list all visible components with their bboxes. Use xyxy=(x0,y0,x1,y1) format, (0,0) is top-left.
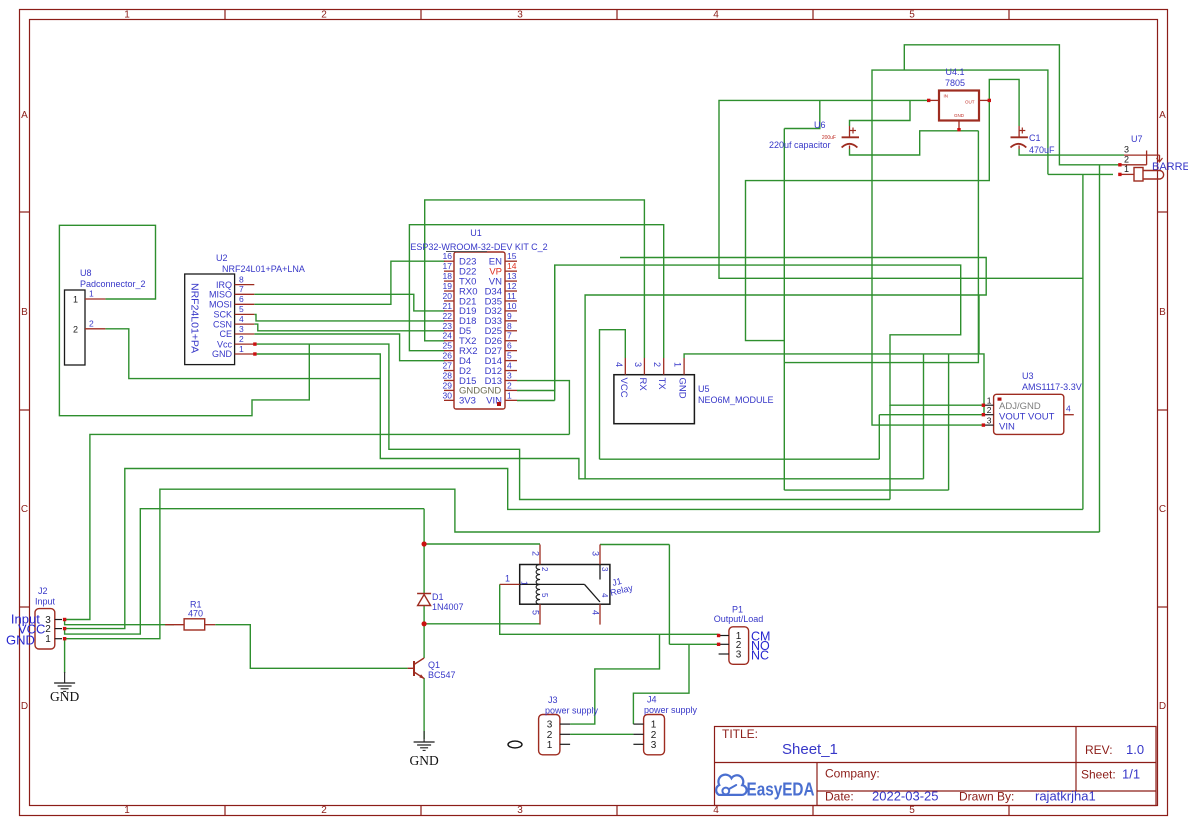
wire CSN U2.4 to U1 D5 xyxy=(254,324,445,331)
wire H4 drop to D1 top junction xyxy=(423,509,425,544)
svg-text:J2: J2 xyxy=(38,586,48,596)
svg-text:3: 3 xyxy=(651,740,657,751)
wire J3.2 to J4.2 xyxy=(570,733,633,735)
wire H1 Input J2.3 xyxy=(65,434,570,619)
svg-text:1.0: 1.0 xyxy=(1126,742,1144,757)
wire W257 top loop xyxy=(620,258,986,296)
wire U3 VOUT row xyxy=(879,414,984,416)
svg-text:3: 3 xyxy=(736,650,742,661)
svg-text:GND: GND xyxy=(50,689,79,704)
svg-text:25: 25 xyxy=(443,341,453,351)
svg-text:Drawn By:: Drawn By: xyxy=(959,790,1014,804)
junction D1 top xyxy=(422,541,427,546)
ground symbol Q1 xyxy=(423,731,425,742)
svg-text:2: 2 xyxy=(321,10,327,21)
wire C1 bottom to U7 pin3 xyxy=(1019,149,1124,155)
U1 pin 28 D15 xyxy=(444,379,454,381)
U1 pin 11 D35 xyxy=(505,300,517,302)
svg-text:A: A xyxy=(21,110,28,121)
svg-text:2: 2 xyxy=(239,334,244,344)
wire main line into 7805 IN xyxy=(719,100,1083,278)
svg-text:24: 24 xyxy=(443,331,453,341)
U1 pin 23 D5 xyxy=(444,330,454,332)
svg-text:1: 1 xyxy=(505,574,510,584)
wire U7 pin1 net to U3 VIN xyxy=(872,70,1048,425)
svg-text:power supply: power supply xyxy=(545,706,599,716)
svg-text:Padconnector_2: Padconnector_2 xyxy=(80,279,146,289)
U1 pin 12 D34 xyxy=(505,290,517,292)
ground symbol J2 xyxy=(64,672,66,683)
wire J2.1 to ground symbol xyxy=(64,639,66,673)
svg-text:1: 1 xyxy=(673,362,683,367)
U4.1 pin GND xyxy=(958,121,960,130)
svg-text:OUT: OUT xyxy=(965,100,975,105)
regulator U3 AMS1117-3.3V xyxy=(994,394,1064,434)
svg-text:TITLE:: TITLE: xyxy=(722,727,758,741)
wire U1 VIN row xyxy=(517,400,555,402)
wire D1 vertical bottom xyxy=(423,606,425,624)
svg-text:19: 19 xyxy=(443,281,453,291)
title block xyxy=(715,727,1157,806)
U8 pin 2 xyxy=(85,328,105,330)
wire U5 VCC riser to 5V U-line xyxy=(600,330,626,460)
wire line y490 to x948 riser xyxy=(784,489,948,491)
wire VCC branch to U8 loop xyxy=(59,225,309,415)
ic U1 ESP32-WROOM-32-DEV KIT C_2 xyxy=(454,252,505,409)
svg-text:TX: TX xyxy=(656,378,667,391)
svg-text:4: 4 xyxy=(591,610,601,615)
svg-text:5: 5 xyxy=(909,805,915,816)
wire W295 xyxy=(585,295,979,479)
svg-text:Sheet_1: Sheet_1 xyxy=(782,741,838,758)
connector J3 power supply xyxy=(539,715,560,755)
svg-text:1: 1 xyxy=(520,581,529,586)
svg-text:8: 8 xyxy=(507,321,512,331)
U1 pin 4 D12 xyxy=(505,370,517,372)
net flag 0 oval xyxy=(508,741,522,748)
svg-text:B: B xyxy=(21,307,28,318)
svg-text:U6: U6 xyxy=(814,120,826,130)
svg-text:2022-03-25: 2022-03-25 xyxy=(872,789,939,804)
wire relay pin3 riser to P1.2 xyxy=(668,545,670,645)
svg-text:J3: J3 xyxy=(548,695,558,705)
svg-text:2: 2 xyxy=(89,318,94,328)
wire VCC net U2.2 via H449 to x890 riser xyxy=(255,344,890,499)
svg-text:3: 3 xyxy=(517,10,523,21)
module U5 NEO6M_MODULE xyxy=(614,375,695,424)
wire J3.3 to CM net xyxy=(570,634,659,724)
U5 pin 1 GND xyxy=(683,358,685,375)
svg-text:4: 4 xyxy=(713,10,719,21)
wire R1 right to Q1 base xyxy=(215,625,407,669)
svg-text:NRF24L01+PA+LNA: NRF24L01+PA+LNA xyxy=(222,264,305,274)
svg-text:1: 1 xyxy=(73,295,78,305)
svg-text:BC547: BC547 xyxy=(428,670,456,680)
U5 pin 4 VCC xyxy=(624,358,626,375)
wire Q1 collector xyxy=(423,624,425,658)
U1 pin 27 D2 xyxy=(444,370,454,372)
svg-text:RX: RX xyxy=(637,378,648,392)
connector P1 Output/Load xyxy=(729,627,749,665)
svg-text:1: 1 xyxy=(89,289,94,299)
svg-text:SCK: SCK xyxy=(213,310,232,320)
svg-text:NRF24L01+PA: NRF24L01+PA xyxy=(189,283,201,353)
J3 pin 3 xyxy=(560,723,570,725)
svg-text:3: 3 xyxy=(633,362,643,367)
svg-text:2: 2 xyxy=(507,380,512,390)
wire 7805 OUT junction down and left xyxy=(746,100,990,340)
diode D1 1N4007 xyxy=(417,593,431,595)
svg-text:200uF: 200uF xyxy=(822,135,836,141)
svg-text:3: 3 xyxy=(507,370,512,380)
svg-text:2: 2 xyxy=(652,362,662,367)
svg-text:A: A xyxy=(1159,110,1166,121)
svg-text:2: 2 xyxy=(321,805,327,816)
svg-text:21: 21 xyxy=(443,301,453,311)
U1 pin 1 VIN xyxy=(505,399,517,401)
wire U5 GND long line xyxy=(684,354,984,415)
svg-text:D1: D1 xyxy=(432,592,444,602)
U3 pin 1 xyxy=(983,404,993,406)
svg-text:C1: C1 xyxy=(1029,133,1041,143)
svg-text:2: 2 xyxy=(987,405,992,415)
wire vertical x554 xyxy=(554,265,556,400)
svg-text:6: 6 xyxy=(507,341,512,351)
svg-text:1: 1 xyxy=(547,740,553,751)
svg-text:4: 4 xyxy=(713,805,719,816)
wire U7 pin2 loop over 7805 xyxy=(904,45,1120,165)
J1 pin 3 xyxy=(599,545,601,565)
svg-text:P1: P1 xyxy=(732,605,743,615)
J1 switch xyxy=(520,583,585,585)
svg-text:12: 12 xyxy=(507,281,517,291)
wire long vertical x784 xyxy=(783,129,785,491)
U1 pin 19 RX0 xyxy=(444,290,454,292)
junction D1 bottom xyxy=(422,621,427,626)
svg-text:4: 4 xyxy=(600,593,609,598)
svg-text:power supply: power supply xyxy=(644,705,698,715)
U1 pin 21 D19 xyxy=(444,310,454,312)
svg-text:7805: 7805 xyxy=(945,78,965,88)
svg-text:1: 1 xyxy=(124,10,130,21)
U1 pin 9 D33 xyxy=(505,320,517,322)
svg-text:VIN: VIN xyxy=(999,422,1015,433)
svg-text:27: 27 xyxy=(443,361,453,371)
svg-text:3: 3 xyxy=(517,805,523,816)
svg-text:2: 2 xyxy=(540,567,549,572)
svg-text:GND: GND xyxy=(212,349,233,359)
U7 pin 3 xyxy=(1124,154,1160,156)
svg-text:1: 1 xyxy=(987,396,992,406)
svg-text:B: B xyxy=(1159,307,1166,318)
U1 pin 8 D25 xyxy=(505,330,517,332)
svg-text:MOSI: MOSI xyxy=(209,300,232,310)
svg-text:8: 8 xyxy=(239,274,244,284)
U7 pin 2 xyxy=(1120,164,1147,166)
svg-text:U8: U8 xyxy=(80,268,92,278)
svg-text:NEO6M_MODULE: NEO6M_MODULE xyxy=(698,395,774,405)
svg-text:9: 9 xyxy=(507,311,512,321)
svg-text:18: 18 xyxy=(443,271,453,281)
connector J2 Input xyxy=(35,609,55,649)
svg-text:GND: GND xyxy=(6,633,35,648)
svg-text:7: 7 xyxy=(239,284,244,294)
svg-text:U4.1: U4.1 xyxy=(945,67,964,77)
regulator U4.1 7805 xyxy=(939,91,979,121)
wire relay pin1 to P1 pin1 CM xyxy=(500,584,719,634)
svg-text:1: 1 xyxy=(124,805,130,816)
svg-text:EasyEDA: EasyEDA xyxy=(747,780,815,800)
svg-text:22: 22 xyxy=(443,311,453,321)
wire GND net U2.1 stepped line to x923 xyxy=(255,354,924,479)
svg-text:rajatkrjha1: rajatkrjha1 xyxy=(1035,789,1096,804)
svg-text:4: 4 xyxy=(239,314,244,324)
svg-text:ESP32-WROOM-32-DEV KIT C_2: ESP32-WROOM-32-DEV KIT C_2 xyxy=(410,242,547,252)
U1 pin 6 D27 xyxy=(505,350,517,352)
wire D1 bottom junction to relay pin5 xyxy=(424,623,540,625)
svg-text:Date:: Date: xyxy=(825,790,854,804)
J1 pin 4 xyxy=(599,604,601,624)
J2 pin 3 xyxy=(55,619,62,621)
svg-text:220uf capacitor: 220uf capacitor xyxy=(769,140,831,150)
connector J4 power supply xyxy=(644,715,665,755)
J1 pin 1 xyxy=(500,583,520,585)
svg-text:1/1: 1/1 xyxy=(1122,767,1140,782)
svg-text:CSN: CSN xyxy=(213,319,232,329)
svg-text:MISO: MISO xyxy=(209,290,232,300)
svg-text:2: 2 xyxy=(1124,154,1129,164)
svg-text:D: D xyxy=(21,701,28,712)
svg-text:6: 6 xyxy=(239,294,244,304)
svg-text:AMS1117-3.3V: AMS1117-3.3V xyxy=(1022,382,1082,392)
resistor R1 470 xyxy=(184,619,205,630)
wire 7805 GND rail down xyxy=(784,131,978,363)
svg-text:1: 1 xyxy=(507,390,512,400)
wire Input J2.3 to R1 xyxy=(65,620,174,625)
U1 pin 25 RX2 xyxy=(444,350,454,352)
U8 pin 1 xyxy=(85,298,105,300)
wire 5V U-line to U3 VOUT riser xyxy=(600,458,880,460)
U1 pin 2 GND xyxy=(505,389,517,391)
U1 pin 22 D18 xyxy=(444,320,454,322)
wire drop x979 to U5 GND line xyxy=(978,295,980,354)
J4 pin 3 xyxy=(633,743,643,745)
wire J4.1 drop xyxy=(633,644,689,724)
svg-text:U7: U7 xyxy=(1131,134,1143,144)
U4.1 pin IN xyxy=(929,99,939,101)
U1 pin 18 TX0 xyxy=(444,280,454,282)
J3 pin 2 xyxy=(560,733,570,735)
svg-text:VCC: VCC xyxy=(618,378,629,398)
svg-text:NC: NC xyxy=(751,649,769,663)
wire D1 vertical top xyxy=(423,544,425,593)
P1 pin 1 xyxy=(719,635,729,637)
U1 pin 10 D32 xyxy=(505,310,517,312)
svg-text:GND: GND xyxy=(954,113,965,118)
svg-text:29: 29 xyxy=(443,380,453,390)
U1 pin 20 D21 xyxy=(444,300,454,302)
svg-text:1: 1 xyxy=(1124,164,1129,174)
svg-text:U1: U1 xyxy=(470,228,482,238)
U1 pin 30 3V3 xyxy=(444,399,454,401)
svg-text:20: 20 xyxy=(443,291,453,301)
wire top loop x784 horiz xyxy=(784,100,820,128)
svg-text:IRQ: IRQ xyxy=(216,280,232,290)
U1 pin 17 D22 xyxy=(444,270,454,272)
transistor Q1 BC547 xyxy=(413,661,415,676)
svg-text:VOUT: VOUT xyxy=(1028,411,1055,422)
svg-text:28: 28 xyxy=(443,370,453,380)
relay J1 xyxy=(520,565,610,605)
svg-text:13: 13 xyxy=(507,271,517,281)
svg-text:CE: CE xyxy=(219,329,232,339)
J2 pin 1 xyxy=(55,638,62,640)
title block texts xyxy=(722,727,1144,804)
J1 pin 2 xyxy=(539,545,541,565)
svg-text:3: 3 xyxy=(239,324,244,334)
wire P1 pin2 row xyxy=(669,643,718,645)
U5 pin 3 RX xyxy=(643,358,645,375)
svg-text:C: C xyxy=(21,504,28,515)
J2 pin 2 xyxy=(55,628,62,630)
wire U8 pin2 to GND vertical xyxy=(105,329,380,379)
wire GND rail from U7.2 xyxy=(1099,165,1101,532)
svg-text:5: 5 xyxy=(909,10,915,21)
wire Q1 emitter to ground xyxy=(423,678,425,739)
wire 12V rail from U7.1 xyxy=(1082,174,1084,509)
svg-text:23: 23 xyxy=(443,321,453,331)
U7 pin 1 xyxy=(1120,173,1134,175)
wire U3 VOUT riser x879 xyxy=(878,415,880,460)
EasyEDA logo xyxy=(716,775,746,795)
P1 pin 2 xyxy=(719,643,729,645)
P1 pin 3 xyxy=(719,653,729,655)
svg-text:J4: J4 xyxy=(647,695,657,705)
svg-text:3: 3 xyxy=(600,567,609,572)
U4.1 pin OUT xyxy=(979,99,989,101)
U1 polarity mark xyxy=(497,402,501,406)
wire U7 pin1 row xyxy=(1048,173,1113,175)
wire CE U2.3 to U1 D4 xyxy=(254,334,445,361)
svg-text:2: 2 xyxy=(73,324,78,334)
svg-text:1N4007: 1N4007 xyxy=(432,602,464,612)
wire riser x890 lower part xyxy=(889,405,891,499)
svg-text:U3: U3 xyxy=(1022,371,1034,381)
ic U2 NRF24L01+PA+LNA xyxy=(185,274,235,365)
svg-text:5: 5 xyxy=(540,593,549,598)
svg-text:3V3: 3V3 xyxy=(459,396,476,407)
svg-text:REV:: REV: xyxy=(1085,743,1113,757)
wire MISO U2.7 to U1 D19 xyxy=(254,294,445,311)
wire U6 bottom to 7805 GND xyxy=(850,131,979,155)
wire U1 GND pin2 to U3 ADJ xyxy=(517,265,983,405)
svg-text:5: 5 xyxy=(531,610,541,615)
U1 pin 7 D26 xyxy=(505,340,517,342)
U1 pin 15 EN xyxy=(505,260,517,262)
wire VCC J2.2 row to relay coil H4 xyxy=(65,509,425,634)
svg-text:14: 14 xyxy=(507,261,517,271)
svg-text:IN: IN xyxy=(944,94,949,99)
svg-text:5: 5 xyxy=(507,351,512,361)
svg-text:GND: GND xyxy=(409,753,438,768)
svg-text:Input: Input xyxy=(35,597,56,607)
J3 pin 1 xyxy=(560,743,570,745)
U1 pin 26 D4 xyxy=(444,360,454,362)
J1 pin 5 xyxy=(539,604,541,624)
svg-text:C: C xyxy=(1159,504,1166,515)
svg-text:5: 5 xyxy=(239,304,244,314)
svg-text:Vcc: Vcc xyxy=(217,339,233,349)
U5 pin 2 TX xyxy=(663,358,665,375)
svg-text:470: 470 xyxy=(188,609,203,619)
wire U5 RX to U1 TX2 xyxy=(425,200,645,358)
svg-text:Sheet:: Sheet: xyxy=(1081,768,1116,782)
svg-text:470uF: 470uF xyxy=(1029,145,1055,155)
J4 pin 1 xyxy=(633,723,643,725)
svg-text:Output/Load: Output/Load xyxy=(714,614,764,624)
J4 pin 2 xyxy=(633,733,643,735)
U1 pin 13 VN xyxy=(505,280,517,282)
svg-text:D: D xyxy=(1159,701,1166,712)
svg-text:11: 11 xyxy=(507,291,516,301)
U1 pin 29 GND xyxy=(444,389,454,391)
wire U5 TX to U1 RX2 xyxy=(409,225,663,358)
svg-text:1: 1 xyxy=(45,634,51,645)
svg-text:15: 15 xyxy=(507,251,517,261)
svg-text:26: 26 xyxy=(443,351,453,361)
svg-text:7: 7 xyxy=(507,331,512,341)
svg-text:10: 10 xyxy=(507,301,517,311)
wire 7805 OUT to C1 plus xyxy=(989,79,1019,126)
U3 pin 3 xyxy=(983,424,993,426)
wire riser x923 to U5 GND line xyxy=(923,354,925,479)
U1 pin 24 TX2 xyxy=(444,340,454,342)
U7 barrel symbol xyxy=(1134,168,1143,182)
svg-text:16: 16 xyxy=(443,251,453,261)
wire VCC J2.2 H2 stepped to 12V rail xyxy=(65,469,1083,629)
U3 pin 2 xyxy=(983,414,993,416)
U1 pin 14 VP xyxy=(505,270,517,272)
svg-text:2: 2 xyxy=(531,551,541,556)
svg-text:3: 3 xyxy=(987,416,992,426)
svg-text:17: 17 xyxy=(443,261,453,271)
wire GND J2.1 H3 stepped to GND rail xyxy=(65,489,1100,639)
svg-text:GND: GND xyxy=(677,378,688,399)
U3 pin 4 VOUT xyxy=(1064,414,1074,416)
wire U6 top to IN line xyxy=(850,100,911,126)
svg-text:4: 4 xyxy=(1066,404,1071,414)
U1 pin 3 D13 xyxy=(505,379,517,381)
wire SCK U2.5 to U1 D18 xyxy=(254,314,445,321)
svg-text:Q1: Q1 xyxy=(428,660,440,670)
svg-text:4: 4 xyxy=(507,361,512,371)
wire U1 D13 drop to H1 xyxy=(517,381,569,435)
svg-text:U2: U2 xyxy=(216,253,228,263)
U1 pin 16 D23 xyxy=(444,260,454,262)
connector U8 Padconnector_2 xyxy=(65,290,86,365)
U1 pin 5 D14 xyxy=(505,360,517,362)
svg-text:30: 30 xyxy=(443,390,453,400)
svg-text:U5: U5 xyxy=(698,384,710,394)
svg-text:Company:: Company: xyxy=(825,767,880,781)
svg-text:1: 1 xyxy=(239,344,244,354)
wire D1 top junction to relay pin2 xyxy=(424,543,540,545)
svg-text:4: 4 xyxy=(614,362,624,367)
wire MOSI U2.6 to U1 D23 xyxy=(254,261,445,304)
svg-text:3: 3 xyxy=(591,551,601,556)
svg-text:3: 3 xyxy=(1124,145,1129,155)
